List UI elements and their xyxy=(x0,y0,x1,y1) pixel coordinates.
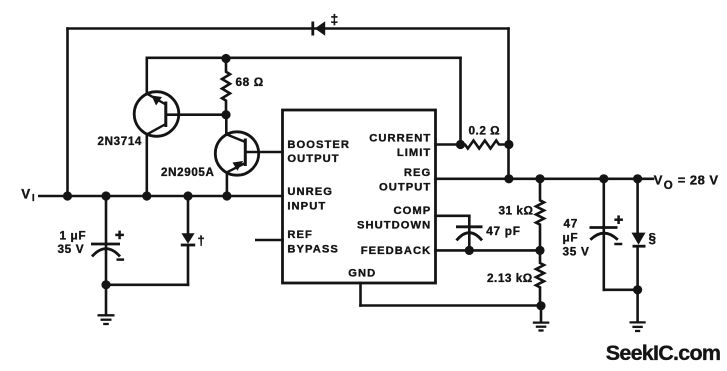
svg-text:68 Ω: 68 Ω xyxy=(236,75,264,89)
svg-text:OUTPUT: OUTPUT xyxy=(379,181,431,193)
svg-text:BOOSTER: BOOSTER xyxy=(287,139,350,151)
svg-text:O: O xyxy=(664,180,673,192)
svg-text:BYPASS: BYPASS xyxy=(287,244,338,256)
svg-text:0.2 Ω: 0.2 Ω xyxy=(469,123,501,137)
svg-text:REG: REG xyxy=(404,167,431,179)
svg-text:SHUTDOWN: SHUTDOWN xyxy=(357,220,431,232)
svg-text:2.13 kΩ: 2.13 kΩ xyxy=(487,271,533,285)
svg-text:2N2905A: 2N2905A xyxy=(161,166,215,179)
svg-text:CURRENT: CURRENT xyxy=(369,133,431,145)
svg-text:V: V xyxy=(654,172,663,187)
svg-text:COMP: COMP xyxy=(394,205,432,217)
svg-text:1 μF: 1 μF xyxy=(60,229,87,243)
svg-text:35 V: 35 V xyxy=(58,242,85,256)
svg-text:31 kΩ: 31 kΩ xyxy=(499,203,534,217)
svg-text:‡: ‡ xyxy=(331,11,339,27)
svg-text:UNREG: UNREG xyxy=(287,186,333,198)
svg-text:OUTPUT: OUTPUT xyxy=(287,153,339,165)
svg-text:LIMIT: LIMIT xyxy=(397,147,431,159)
svg-text:SeekIC.com: SeekIC.com xyxy=(606,341,720,365)
svg-text:= 28 V: = 28 V xyxy=(678,172,719,187)
svg-text:μF: μF xyxy=(563,230,579,244)
svg-text:§: § xyxy=(649,230,657,245)
svg-text:I: I xyxy=(32,193,35,204)
svg-text:FEEDBACK: FEEDBACK xyxy=(361,245,432,257)
svg-text:REF: REF xyxy=(287,229,313,241)
svg-text:2N3714: 2N3714 xyxy=(98,135,143,148)
svg-text:35 V: 35 V xyxy=(563,244,590,258)
svg-text:†: † xyxy=(198,233,205,248)
svg-text:V: V xyxy=(21,187,30,202)
svg-text:47 pF: 47 pF xyxy=(486,224,520,238)
svg-text:INPUT: INPUT xyxy=(287,200,326,212)
svg-text:47: 47 xyxy=(564,217,579,231)
svg-text:GND: GND xyxy=(348,268,376,280)
